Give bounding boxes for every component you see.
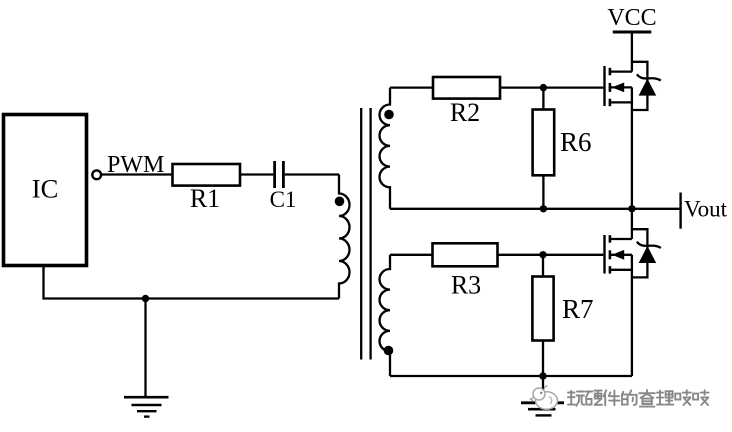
wire bottom loop top rail winding to R3 bbox=[390, 254, 433, 256]
Q1 source stub bbox=[610, 101, 632, 103]
capacitor C1 bbox=[275, 161, 284, 188]
node junction dot R7 bottom bbox=[539, 372, 546, 379]
Q1 gate bar bbox=[603, 66, 605, 106]
wire R6 top stub bbox=[542, 88, 544, 110]
node junction dot R7 top bbox=[539, 251, 546, 258]
svg-text:R2: R2 bbox=[450, 98, 480, 127]
wire IC bottom to primary bottom bbox=[44, 267, 340, 299]
node junction dot Vout bbox=[628, 205, 635, 212]
transformer core bbox=[361, 108, 370, 360]
resistor R7 bbox=[532, 277, 553, 341]
Q1 body diode triangle bbox=[639, 79, 657, 96]
VCC terminal bar bbox=[613, 31, 652, 34]
node junction dot R6 bottom bbox=[540, 205, 547, 212]
wire R6 bottom stub bbox=[542, 175, 544, 209]
wire R7 bottom stub bbox=[542, 340, 544, 376]
Q2 channel segments bbox=[609, 235, 612, 243]
PWM pin circle bbox=[92, 170, 101, 179]
transistor Q1 high-side MOSFET bbox=[605, 32, 661, 209]
svg-text:R3: R3 bbox=[451, 271, 481, 300]
svg-text:C1: C1 bbox=[270, 187, 297, 212]
transformer T1 secondary bottom winding bbox=[379, 255, 390, 376]
Q2 source vertical to bottom rail bbox=[631, 255, 633, 376]
svg-text:R7: R7 bbox=[562, 294, 594, 324]
transformer T1 primary winding bbox=[339, 175, 350, 299]
transformer T1 secondary top winding bbox=[380, 88, 391, 209]
Q1 source vertical to Vout node bbox=[631, 87, 633, 208]
transistor Q2 low-side MOSFET bbox=[605, 209, 661, 376]
resistor R2 bbox=[433, 77, 500, 99]
Q1 drain vertical from VCC bbox=[631, 32, 633, 72]
Q1 body diode cathode tilde bbox=[637, 74, 661, 80]
wire bottom rail of top loop to Vout bbox=[390, 208, 680, 210]
resistor R1 bbox=[173, 164, 241, 186]
Q2 drain vertical from Vout node bbox=[631, 209, 633, 239]
Vout terminal bar bbox=[679, 193, 681, 229]
wire C1 to transformer primary bbox=[285, 173, 339, 175]
wire bottom rail of bottom loop bbox=[390, 375, 632, 377]
Q1 drain stub bbox=[610, 70, 632, 72]
wire PWM pin to R1 bbox=[101, 173, 173, 175]
Q2 source stub bbox=[610, 269, 632, 271]
wire R7 top stub bbox=[542, 255, 544, 277]
wire R1 to C1 bbox=[240, 173, 273, 175]
bottom secondary phase dot bbox=[384, 346, 394, 356]
watermark text (stylized CJK strokes) bbox=[568, 390, 709, 407]
Q2 body diode branch bbox=[632, 229, 648, 277]
node junction dot R6 top bbox=[540, 84, 547, 91]
svg-text:R1: R1 bbox=[190, 184, 220, 213]
resistor R6 bbox=[533, 110, 555, 176]
svg-text:R6: R6 bbox=[560, 127, 592, 157]
Q1 body diode branch bbox=[632, 62, 648, 110]
wire R2 to Q1 gate bbox=[500, 86, 603, 88]
svg-text:Vout: Vout bbox=[684, 196, 728, 221]
wire ground stub left bbox=[144, 299, 146, 397]
Q2 gate bar bbox=[603, 235, 605, 274]
Q2 drain stub bbox=[610, 238, 632, 240]
svg-text:VCC: VCC bbox=[607, 5, 656, 31]
watermark logo chick icon bbox=[530, 386, 557, 409]
node junction dot left ground bbox=[142, 295, 149, 302]
wire top rail winding to R2 bbox=[390, 86, 433, 88]
wire ground stub right bbox=[542, 376, 544, 402]
primary phase dot bbox=[335, 197, 345, 207]
svg-text:IC: IC bbox=[32, 174, 59, 204]
top secondary phase dot bbox=[384, 110, 394, 120]
ground symbol right bbox=[521, 403, 564, 416]
Q2 body stub with arrow bbox=[610, 254, 632, 256]
resistor R3 bbox=[433, 243, 498, 266]
Q1 body stub with arrow bbox=[610, 86, 632, 88]
ground symbol left bbox=[124, 397, 169, 416]
IC U1 box bbox=[4, 115, 87, 266]
wire R3 to Q2 gate bbox=[498, 254, 604, 256]
Q2 body diode cathode tilde bbox=[637, 242, 661, 248]
Q1 channel segments bbox=[609, 68, 612, 76]
Q2 body diode triangle bbox=[639, 246, 657, 263]
